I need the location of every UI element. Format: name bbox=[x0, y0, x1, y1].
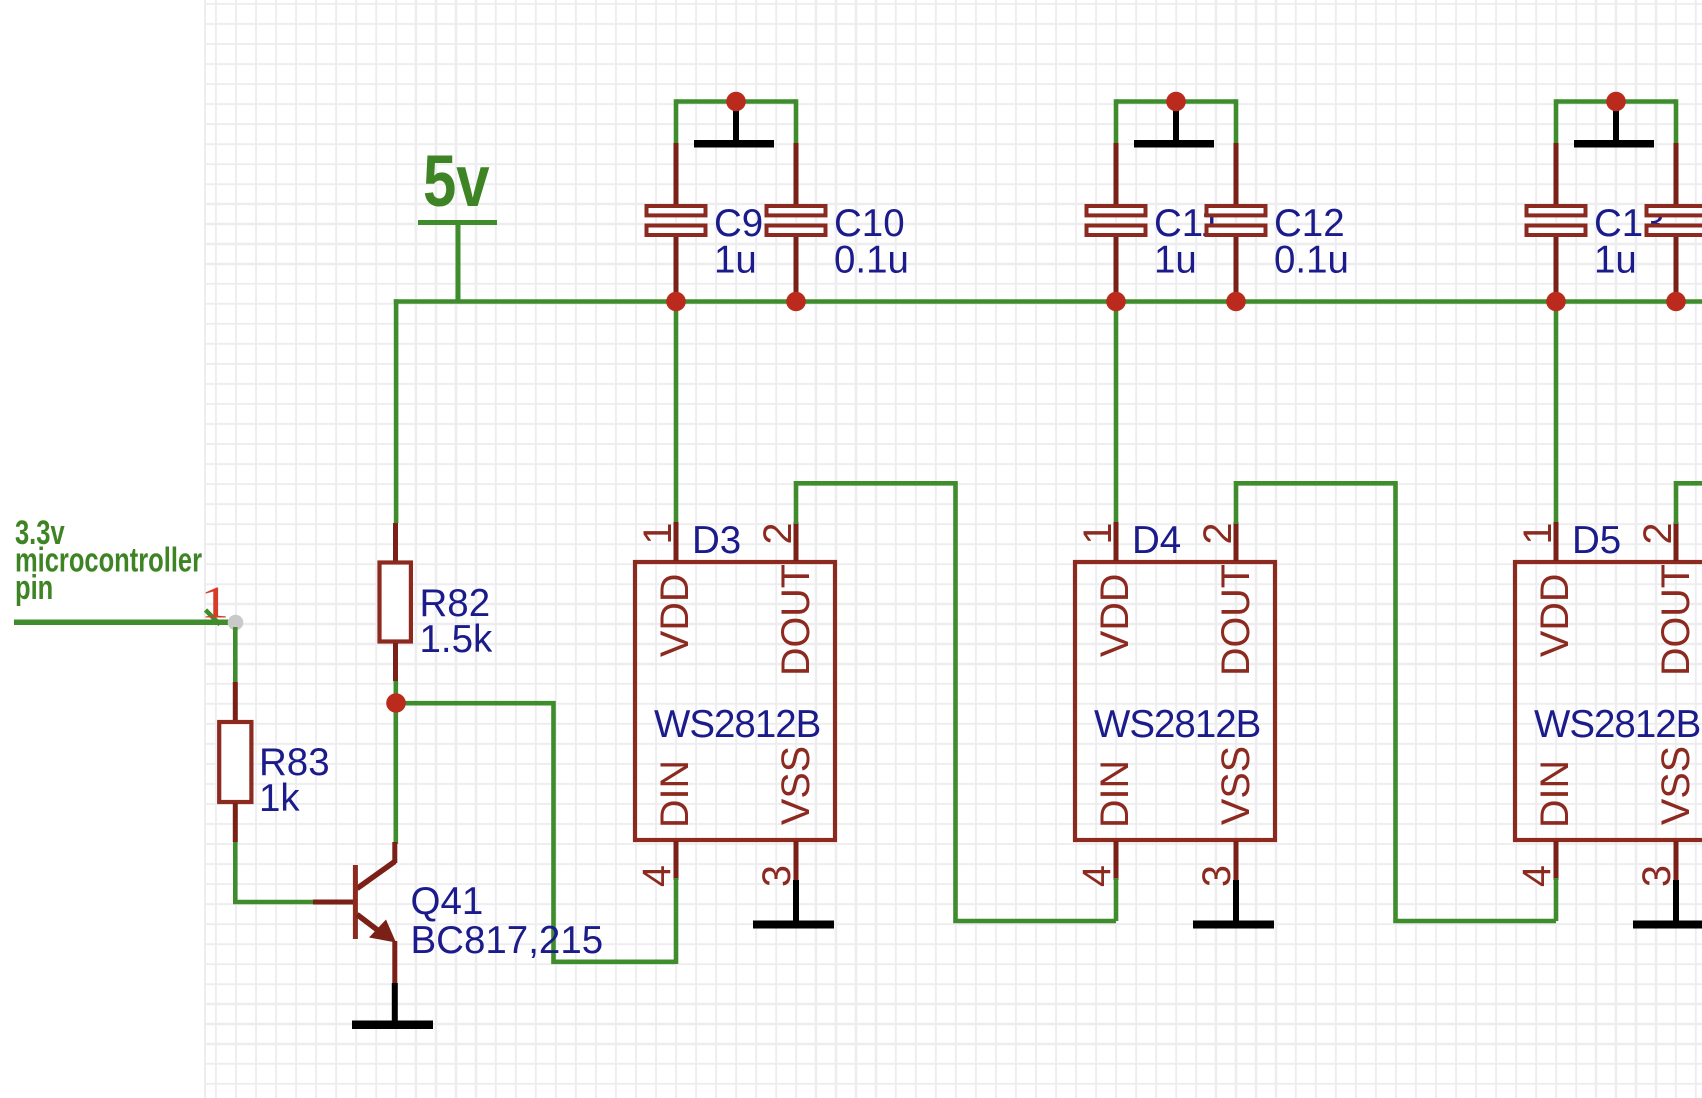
wire R83 to Q41 base bbox=[235, 842, 313, 902]
svg-text:BC817,215: BC817,215 bbox=[411, 919, 604, 962]
svg-text:2: 2 bbox=[756, 523, 800, 545]
svg-text:Q41: Q41 bbox=[411, 880, 484, 923]
svg-text:1: 1 bbox=[1516, 523, 1560, 545]
junction dot rail C13 bbox=[1546, 292, 1566, 312]
label C12 0.1u bbox=[1274, 202, 1349, 282]
junction dot gnd C11/C12 bbox=[1166, 92, 1186, 112]
wire junction to Q41 collector bbox=[393, 703, 398, 844]
svg-text:VDD: VDD bbox=[1093, 574, 1137, 657]
label Q41 BC817,215 bbox=[411, 880, 604, 962]
wire 5v drop to R82 bbox=[394, 299, 399, 523]
svg-text:DIN: DIN bbox=[1093, 760, 1137, 828]
junction dot rail C10 bbox=[786, 292, 806, 312]
svg-text:4: 4 bbox=[635, 865, 679, 887]
svg-text:1: 1 bbox=[1076, 523, 1120, 545]
junction dot rail C14 bbox=[1666, 292, 1686, 312]
svg-text:D3: D3 bbox=[692, 519, 741, 562]
wire D4 DOUT onward bbox=[1236, 483, 1556, 921]
capacitor C10 bbox=[767, 143, 826, 299]
junction dot gnd C13/C14 bbox=[1606, 92, 1626, 112]
label C9 1u bbox=[714, 202, 763, 282]
svg-text:1: 1 bbox=[636, 523, 680, 545]
svg-text:DOUT: DOUT bbox=[774, 564, 818, 676]
svg-text:WS2812B: WS2812B bbox=[654, 703, 820, 746]
junction dot at R82/Q41/D3 node bbox=[386, 693, 406, 713]
svg-text:DIN: DIN bbox=[1533, 760, 1577, 828]
svg-text:D5: D5 bbox=[1572, 519, 1621, 562]
svg-text:VDD: VDD bbox=[653, 574, 697, 657]
net label 3.3v microcontroller pin bbox=[15, 515, 202, 607]
svg-text:VSS: VSS bbox=[1654, 746, 1698, 825]
wire junction to D3 DIN bbox=[396, 703, 676, 962]
svg-text:DOUT: DOUT bbox=[1214, 564, 1258, 676]
svg-text:DIN: DIN bbox=[653, 760, 697, 828]
pin 3.3v microcontroller (diagonal tick) bbox=[206, 610, 221, 625]
power flag 5v bbox=[418, 141, 497, 301]
wire 5v to D5 VDD bbox=[1554, 302, 1559, 525]
junction dot rail C11 bbox=[1106, 292, 1126, 312]
ground below D4 VSS bbox=[1193, 880, 1274, 929]
svg-text:WS2812B: WS2812B bbox=[1094, 703, 1260, 746]
wire 3.3v input bbox=[14, 620, 231, 626]
svg-text:5v: 5v bbox=[423, 141, 490, 222]
capacitor C13 bbox=[1527, 143, 1586, 299]
svg-text:4: 4 bbox=[1515, 865, 1559, 887]
svg-text:1u: 1u bbox=[1594, 239, 1637, 282]
ground above C13/C14 bbox=[1574, 103, 1654, 148]
wire 5v to D4 VDD bbox=[1114, 302, 1119, 525]
svg-text:VSS: VSS bbox=[774, 746, 818, 825]
wire gnd link above C13/C14 bbox=[1556, 99, 1676, 143]
ground below Q41 bbox=[352, 983, 433, 1029]
node: pin connection dot bbox=[228, 615, 244, 631]
ground below D5 VSS bbox=[1633, 880, 1702, 929]
WS2812B LED D5 bbox=[1515, 522, 1702, 880]
label C11 1u bbox=[1154, 202, 1222, 282]
svg-text:2: 2 bbox=[1636, 523, 1680, 545]
svg-text:pin: pin bbox=[15, 570, 53, 607]
junction dot rail C9 bbox=[666, 292, 686, 312]
capacitor C14 bbox=[1647, 143, 1702, 299]
transistor Q41 BC817,215 bbox=[313, 842, 396, 983]
svg-text:0.1u: 0.1u bbox=[1274, 239, 1349, 282]
junction dot rail C12 bbox=[1226, 292, 1246, 312]
wire 5v rail bbox=[394, 299, 1702, 304]
wire input to R83 bbox=[233, 627, 238, 682]
wire to D5 DIN bbox=[1554, 878, 1559, 921]
svg-text:3: 3 bbox=[1195, 865, 1239, 887]
svg-text:1.5k: 1.5k bbox=[420, 618, 494, 661]
label C13 1u bbox=[1594, 202, 1665, 282]
svg-text:3: 3 bbox=[1635, 865, 1679, 887]
ground above C9/C10 bbox=[694, 103, 774, 148]
ground below D3 VSS bbox=[753, 880, 834, 929]
resistor R83 bbox=[219, 682, 251, 842]
wire gnd link above C11/C12 bbox=[1116, 99, 1236, 143]
svg-text:1u: 1u bbox=[1154, 239, 1197, 282]
wire gnd link above C9/C10 bbox=[676, 99, 796, 143]
ground above C11/C12 bbox=[1134, 103, 1214, 148]
svg-text:VDD: VDD bbox=[1533, 574, 1577, 657]
svg-text:0.1u: 0.1u bbox=[834, 239, 909, 282]
svg-text:1: 1 bbox=[201, 578, 230, 628]
svg-text:4: 4 bbox=[1075, 865, 1119, 887]
wire R82 to junction bbox=[393, 681, 398, 703]
svg-text:WS2812B: WS2812B bbox=[1534, 703, 1700, 746]
wire D5 DOUT onward bbox=[1676, 483, 1702, 524]
svg-text:DOUT: DOUT bbox=[1654, 564, 1698, 676]
wire D3 DIN down bbox=[674, 878, 679, 964]
svg-text:3: 3 bbox=[755, 865, 799, 887]
WS2812B LED D3 bbox=[635, 522, 835, 880]
WS2812B LED D4 bbox=[1075, 522, 1275, 880]
wire D3 DOUT onward bbox=[796, 483, 1116, 921]
wire 5v to D3 VDD bbox=[674, 302, 679, 525]
label R83 1k bbox=[259, 741, 330, 820]
svg-text:2: 2 bbox=[1196, 523, 1240, 545]
capacitor C12 bbox=[1207, 143, 1266, 299]
svg-text:VSS: VSS bbox=[1214, 746, 1258, 825]
svg-text:1k: 1k bbox=[259, 777, 300, 820]
capacitor C9 bbox=[647, 143, 706, 299]
label C10 0.1u bbox=[834, 202, 909, 282]
capacitor C11 bbox=[1087, 143, 1146, 299]
junction dot gnd C9/C10 bbox=[726, 92, 746, 112]
svg-text:1u: 1u bbox=[714, 239, 757, 282]
label R82 1.5k bbox=[420, 582, 494, 661]
svg-text:D4: D4 bbox=[1132, 519, 1181, 562]
resistor R82 bbox=[380, 523, 411, 681]
wire to D4 DIN bbox=[1114, 878, 1119, 921]
